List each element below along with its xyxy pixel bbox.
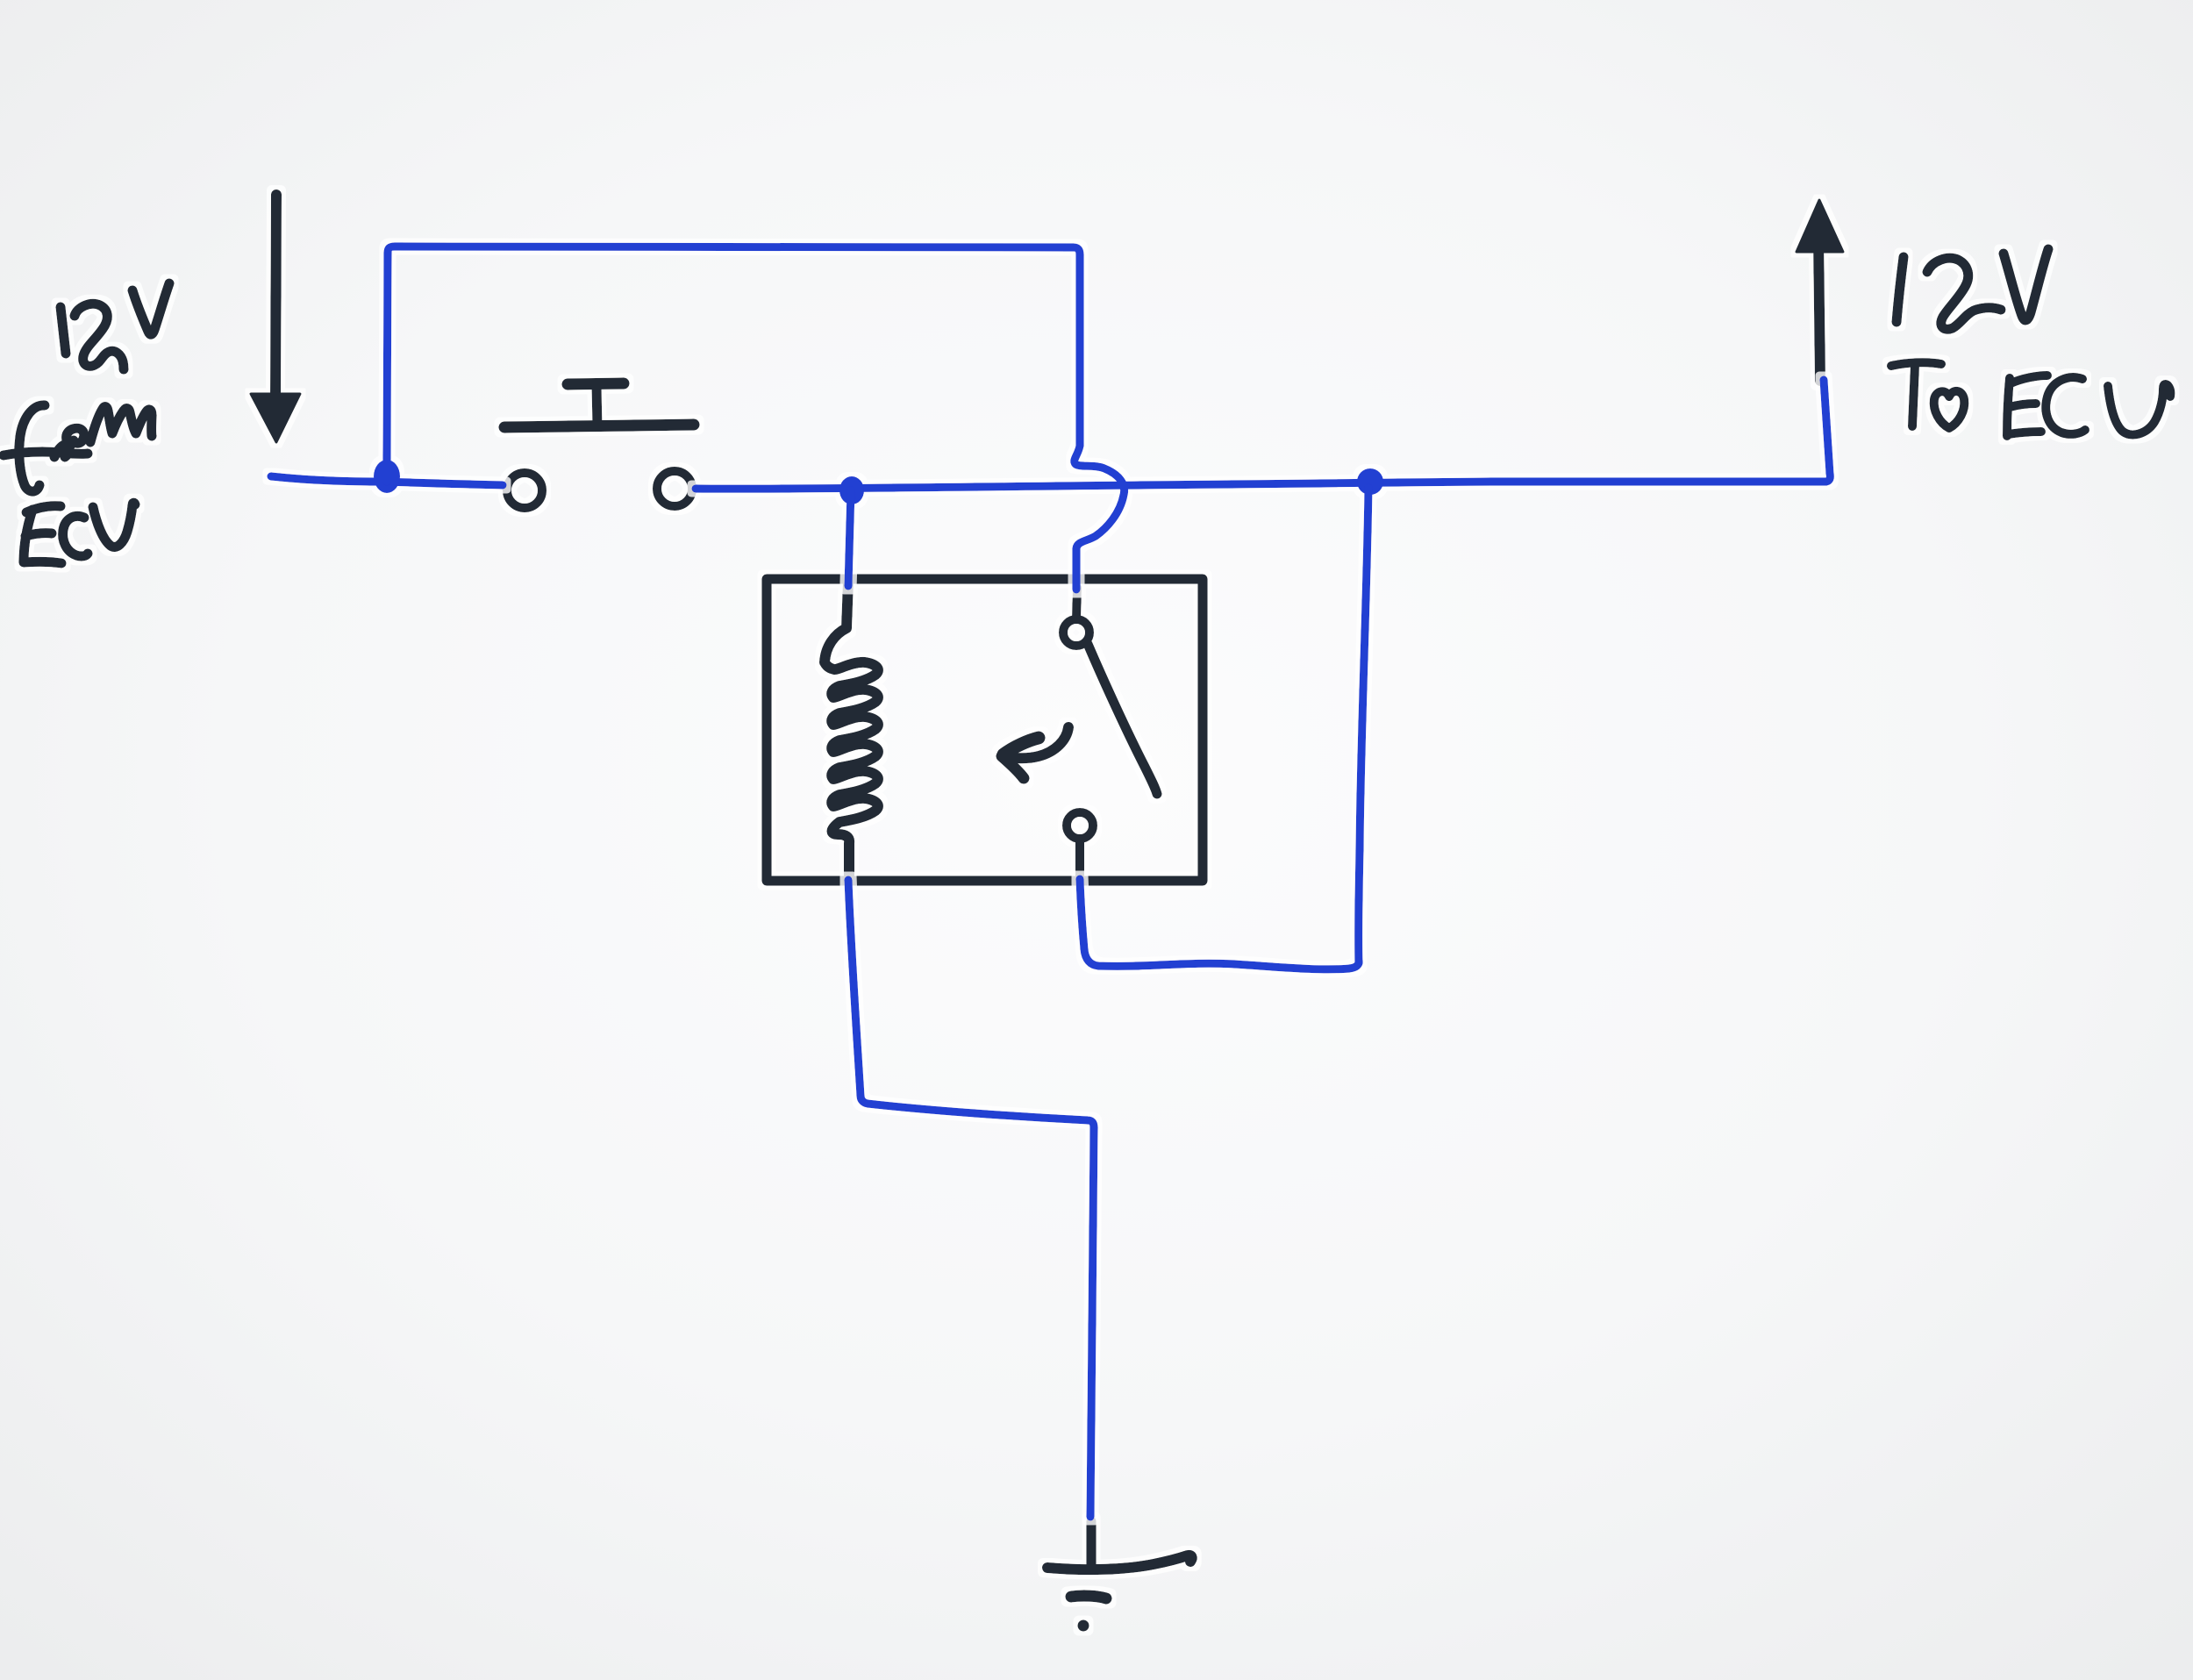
- pushbutton S1 terminal 1: [507, 473, 542, 508]
- wire: 12V input feed (left horizontal): [271, 476, 384, 482]
- output arrow shaft (12V to ECU): [1797, 200, 1843, 381]
- input arrow head: [251, 394, 300, 442]
- relay contact bottom pin: [1075, 840, 1084, 880]
- relay contact top terminal: [1063, 619, 1089, 646]
- pushbutton S1 actuator cap: [504, 383, 694, 508]
- wire: J3 down leg: [1359, 488, 1368, 963]
- label from (left): [4, 405, 152, 491]
- actuation arrow head lower barb: [1002, 756, 1024, 778]
- label 12V (right): [1897, 249, 2048, 329]
- wire: relay contact bottom to J3 leg: [1080, 879, 1359, 969]
- relay coil: [825, 581, 878, 880]
- wire: hop over main wire into relay contact: [1075, 446, 1125, 590]
- relay contact top pin: [1063, 588, 1157, 880]
- pushbutton S1 terminal 2: [657, 471, 692, 506]
- actuation arrow shaft (coil pulls contact): [1002, 727, 1068, 778]
- ground stem: [1047, 1521, 1192, 1632]
- label ECU (left): [24, 503, 135, 563]
- label To ECU (right): [1891, 362, 2170, 436]
- node: junction J2 (coil feed): [839, 476, 864, 504]
- node: junction J3 (contact return): [1357, 468, 1383, 495]
- output arrow head: [1797, 200, 1843, 252]
- ground bar 1: [1047, 1555, 1192, 1569]
- pushbutton S1 actuator bar: [504, 425, 694, 427]
- wire: relay coil bottom to ground: [848, 880, 1094, 1517]
- ground bar 2: [1071, 1596, 1106, 1598]
- wire: main run from pushbutton to output riser: [696, 380, 1830, 489]
- relay contact bottom terminal: [1067, 812, 1093, 839]
- relay contact blade (NO switch): [1088, 644, 1157, 794]
- wire: J1 up, top bypass run, down to hop: [387, 247, 1080, 482]
- pushbutton S1 actuator stem: [596, 387, 597, 426]
- label 12V (left): [61, 283, 169, 369]
- relay K1 box: [767, 579, 1203, 881]
- wire: J2 down to relay coil: [848, 490, 851, 586]
- ground dot: [1078, 1620, 1089, 1632]
- input arrow shaft (12V from ECU feed): [251, 195, 300, 442]
- node: junction J1: [374, 460, 400, 493]
- wire: J1 to pushbutton terminal: [387, 482, 503, 485]
- actuation arrow head upper barb: [1004, 738, 1039, 754]
